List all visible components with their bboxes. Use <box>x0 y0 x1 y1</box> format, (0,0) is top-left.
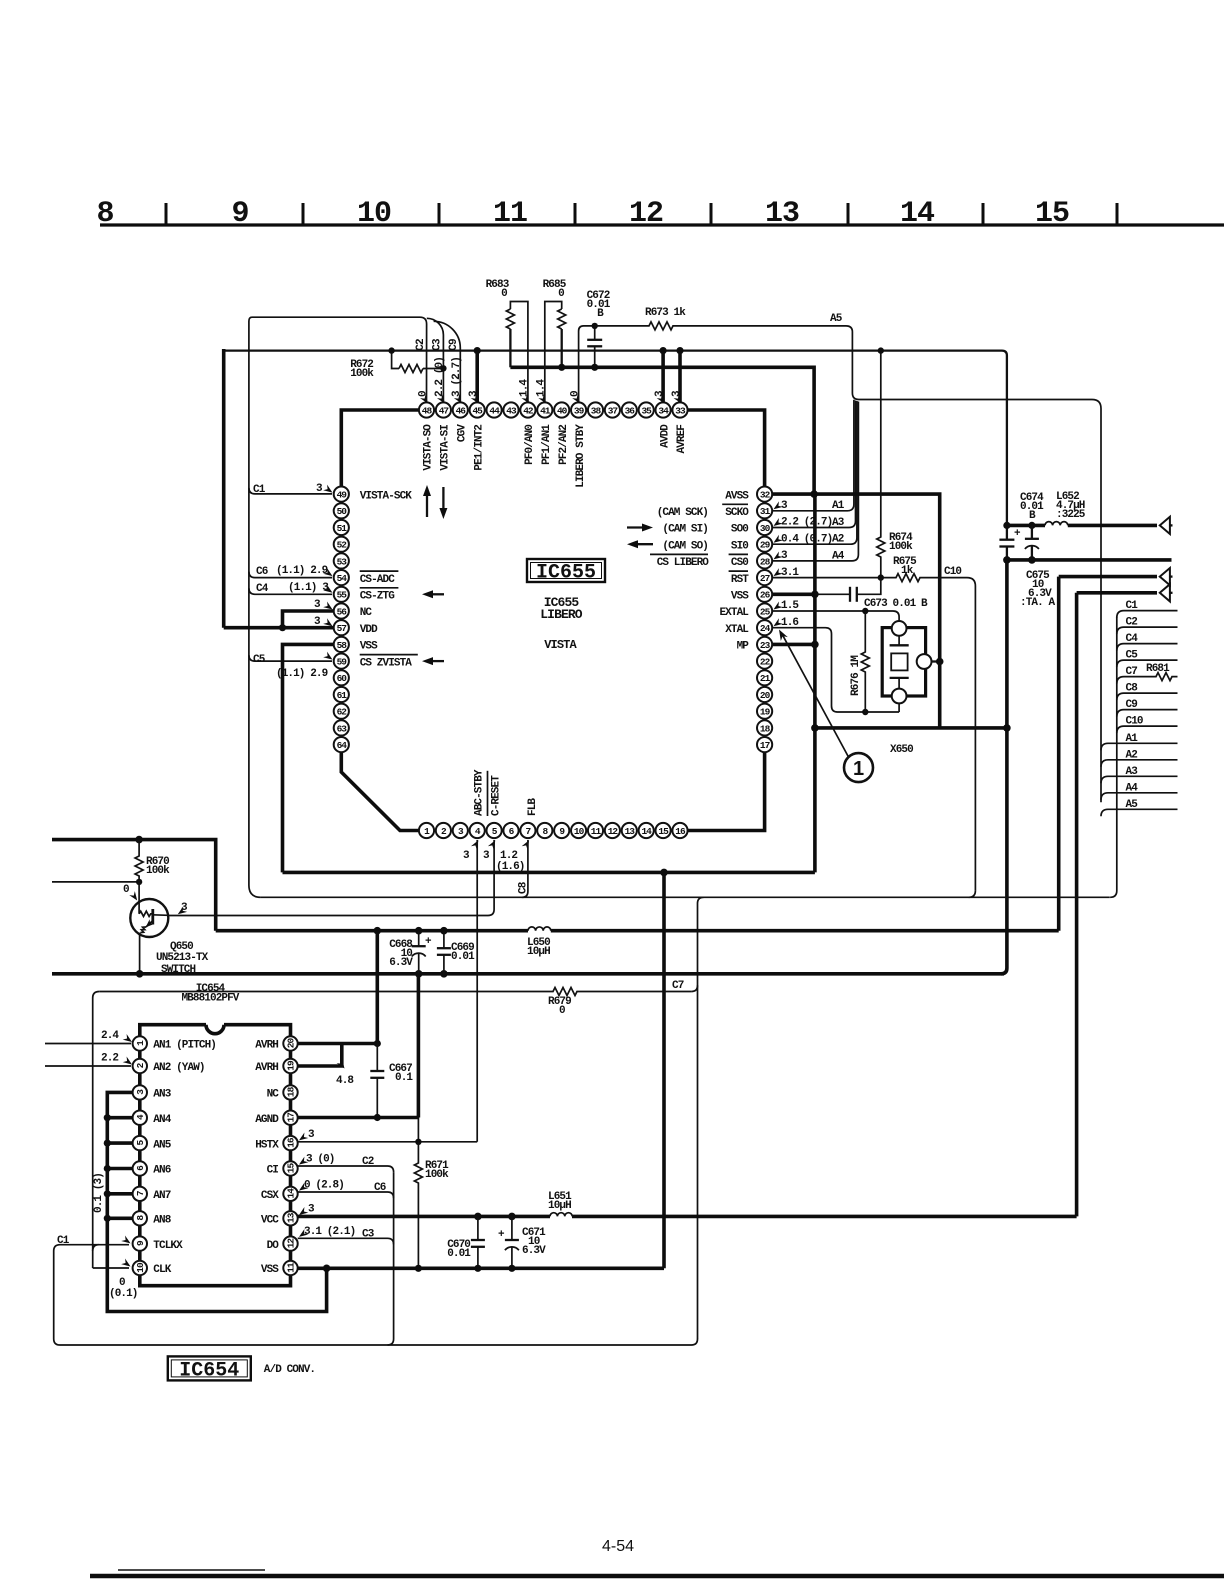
IC655 pin 31 <box>757 503 772 518</box>
svg-text::TA. A: :TA. A <box>1020 597 1056 609</box>
resistor R673 1k on A5 line <box>595 322 846 330</box>
svg-text:100k: 100k <box>350 368 374 380</box>
IC655 pin 8 <box>537 823 552 838</box>
svg-text:ABC-STBY: ABC-STBY <box>473 769 485 816</box>
svg-text:AN3: AN3 <box>153 1089 171 1101</box>
arrowhead right pin y=578 <box>772 568 783 579</box>
ruler ticks <box>166 203 1117 225</box>
IC654 pin 5 <box>133 1136 147 1150</box>
svg-text:100k: 100k <box>425 1169 449 1181</box>
wire IC655 pin 7 down to C-bus (net C8) <box>522 840 528 897</box>
svg-text:PF1/AN1: PF1/AN1 <box>541 424 553 465</box>
svg-text:10: 10 <box>357 197 391 231</box>
arrowhead right pin y=544 <box>772 535 783 546</box>
svg-text:UN5213-TX: UN5213-TX <box>156 952 209 964</box>
svg-text:40: 40 <box>557 405 568 416</box>
wire IC655 pin 4 down to IC654 HSTX <box>476 840 478 1142</box>
svg-text:13: 13 <box>765 197 799 231</box>
C-bus branch to C4 (pin 55) <box>249 588 332 594</box>
svg-text:C673 0.01 B: C673 0.01 B <box>864 598 928 610</box>
svg-text:MP: MP <box>737 641 750 653</box>
IC655 pin 3 <box>453 823 468 838</box>
wire VCC pin13 thick <box>298 1215 1077 1219</box>
IC654 pin 8 <box>133 1211 147 1225</box>
svg-text:29: 29 <box>760 540 771 551</box>
svg-text:12: 12 <box>629 197 663 231</box>
capacitor C667 0.1 <box>370 1070 384 1072</box>
IC655 pin 62 <box>334 704 349 719</box>
IC655 body outline thick polyline (pin48-left-down to pin49) <box>341 410 426 487</box>
svg-text:C6: C6 <box>256 566 268 578</box>
svg-text:25: 25 <box>760 606 771 617</box>
svg-text:0.01: 0.01 <box>451 951 475 963</box>
TOP COMPONENTS <box>224 279 1101 897</box>
svg-text:TCLKX: TCLKX <box>153 1240 183 1252</box>
net list entry C5 <box>1117 660 1178 667</box>
svg-text:C7: C7 <box>1126 666 1138 678</box>
svg-text:0.01: 0.01 <box>447 1248 471 1260</box>
C7 elbow from R679 line <box>691 985 697 991</box>
svg-text:AVRH: AVRH <box>255 1062 278 1074</box>
svg-text:8: 8 <box>96 197 113 231</box>
svg-text:10: 10 <box>135 1262 146 1273</box>
IC655 pin 23 <box>757 637 772 652</box>
IC655 pin 46 <box>453 402 468 417</box>
IC654 boxed title <box>168 1356 251 1380</box>
svg-text:C10: C10 <box>944 566 961 578</box>
svg-text:21: 21 <box>760 673 771 684</box>
supply vertical x=1076.6 down to IC654 VCC <box>1075 593 1079 1217</box>
net C3 drop to pin 47 <box>427 318 444 401</box>
IC655 pin 33 <box>672 402 687 417</box>
svg-text:32: 32 <box>760 490 771 501</box>
svg-text:CGV: CGV <box>457 424 469 442</box>
svg-text:C4: C4 <box>1126 633 1139 645</box>
svg-text:100k: 100k <box>146 865 170 877</box>
svg-text:37: 37 <box>608 405 619 416</box>
net list entry C1 <box>1117 611 1178 618</box>
svg-text:43: 43 <box>506 405 517 416</box>
svg-text:CI: CI <box>267 1165 279 1177</box>
LEFT MID AREA <box>52 644 1110 1339</box>
svg-text:0.1 (3): 0.1 (3) <box>93 1173 105 1213</box>
IC655 pin 36 <box>622 402 637 417</box>
IC655 OUTLINE AND PINS <box>253 357 845 894</box>
svg-text:60: 60 <box>337 673 348 684</box>
svg-text:57: 57 <box>337 623 348 634</box>
IC654 pin 13 <box>283 1211 297 1225</box>
arrow left at CS ZVISTA <box>429 660 444 662</box>
svg-text:C5: C5 <box>1126 650 1139 662</box>
arrowhead at top pin x=443 <box>437 394 448 405</box>
IC655 pin 32 <box>757 487 772 502</box>
svg-text:48: 48 <box>422 405 433 416</box>
svg-text:VCC: VCC <box>261 1215 279 1227</box>
net list entry C4 <box>1117 644 1178 651</box>
svg-text:C6: C6 <box>374 1182 386 1194</box>
ground horizontal y=872.4 <box>283 871 815 875</box>
A5 elbow down into A-bus <box>846 326 852 393</box>
svg-text:27: 27 <box>760 573 771 584</box>
arrowhead at top pin x=477 <box>471 394 482 405</box>
svg-text:17: 17 <box>286 1112 297 1123</box>
svg-text:6.3V: 6.3V <box>522 1245 546 1257</box>
svg-text:10: 10 <box>574 826 585 837</box>
svg-text:53: 53 <box>337 556 348 567</box>
svg-text:PE1/INT2: PE1/INT2 <box>473 425 485 471</box>
svg-text:2.2 (0): 2.2 (0) <box>434 357 446 397</box>
AN pin stub y=1218 <box>107 1217 132 1221</box>
AN pin stub y=1118 <box>107 1116 132 1120</box>
svg-text:A5: A5 <box>1126 799 1139 811</box>
XTAL pin24 wire <box>773 628 899 712</box>
AVREF pin33 riser <box>678 351 682 402</box>
supply line y=592.8 with connector arrow <box>1077 591 1157 595</box>
AVSS pin32 wire <box>773 494 940 728</box>
C7 branch elbow down <box>698 897 704 1339</box>
capacitor C669 0.01 <box>443 931 445 949</box>
svg-text:FLB: FLB <box>527 798 539 816</box>
svg-text:C3: C3 <box>362 1228 375 1240</box>
IC655 pin 41 <box>537 402 552 417</box>
IC655 pin 7 <box>520 823 535 838</box>
IC655 outline pin64 to pin1 (diagonal) <box>341 752 419 831</box>
svg-text:C7: C7 <box>672 980 684 992</box>
IC654 pin 16 <box>283 1136 297 1150</box>
net list entry C10 <box>1117 726 1178 733</box>
svg-text:AN7: AN7 <box>153 1190 170 1202</box>
svg-text:PF0/AN0: PF0/AN0 <box>524 425 536 465</box>
svg-text:R676 1M: R676 1M <box>850 655 862 696</box>
wire CI pin15 (net C2) <box>298 1166 394 1172</box>
svg-text:35: 35 <box>641 405 652 416</box>
IC655 pin 18 <box>757 720 772 735</box>
svg-text:AN1 (PITCH): AN1 (PITCH) <box>153 1040 216 1052</box>
svg-text:AN8: AN8 <box>153 1215 171 1227</box>
4.8 voltage marker <box>337 1059 348 1070</box>
IC655 pin 45 <box>470 402 485 417</box>
bottom border thin segment <box>118 1569 265 1571</box>
ground stub line y=559.9 to right edge <box>1007 558 1172 562</box>
resistor R672 100k <box>392 351 399 369</box>
IC654 pin 4 <box>133 1111 147 1125</box>
IC655 pin 54 <box>334 570 349 585</box>
VSS pin26 wire <box>773 592 815 596</box>
inductor L652 4.7uH <box>1007 524 1045 528</box>
svg-text:LIBERO STBY: LIBERO STBY <box>575 424 587 488</box>
svg-text:4-54: 4-54 <box>602 1538 634 1555</box>
svg-text:39: 39 <box>574 405 585 416</box>
svg-text:2.4: 2.4 <box>101 1030 119 1042</box>
C-bus top-left corner <box>249 317 261 897</box>
IC655 pin 40 <box>554 402 569 417</box>
svg-text:AN5: AN5 <box>153 1139 171 1151</box>
svg-text:C9: C9 <box>448 339 460 351</box>
MP pin23 wire <box>773 643 815 647</box>
IC654 AREA <box>45 931 1077 1383</box>
svg-text:RST: RST <box>731 574 749 586</box>
IC655 pin 14 <box>639 823 654 838</box>
svg-text:(CAM SCK): (CAM SCK) <box>657 507 708 519</box>
svg-text:0: 0 <box>417 391 429 397</box>
svg-text:38: 38 <box>591 405 602 416</box>
svg-text:15: 15 <box>1035 197 1069 231</box>
arrow left at CS-ZTG <box>429 593 444 595</box>
svg-text:AN6: AN6 <box>153 1165 170 1177</box>
IC655 pin 5 <box>487 823 502 838</box>
IC655 pin 52 <box>334 537 349 552</box>
IC654 pin 20 <box>283 1036 297 1050</box>
svg-text:30: 30 <box>760 523 771 534</box>
svg-text:12: 12 <box>608 826 619 837</box>
RULER <box>96 197 1224 231</box>
svg-text:C2: C2 <box>415 339 427 351</box>
IC655 pin 48 <box>419 402 434 417</box>
arrowhead right pin y=528 <box>772 518 783 529</box>
svg-text:3 (0): 3 (0) <box>306 1154 335 1166</box>
svg-text:R673 1k: R673 1k <box>645 307 686 319</box>
svg-text:61: 61 <box>337 690 348 701</box>
svg-text:6.3V: 6.3V <box>389 957 413 969</box>
IC655 pin 39 <box>571 402 586 417</box>
svg-text:IC654: IC654 <box>179 1360 239 1383</box>
IC655 pin 56 <box>334 603 349 618</box>
IC655 pin 35 <box>639 402 654 417</box>
svg-text:15: 15 <box>658 826 669 837</box>
svg-text:SO0: SO0 <box>731 524 748 536</box>
ground horizontal y=728 <box>815 726 1007 730</box>
svg-text:CS-ZTG: CS-ZTG <box>360 591 396 603</box>
C2/C6/C3 bus vertical x=393.6 <box>388 1172 394 1345</box>
A2 elbow from pin29 <box>773 401 857 544</box>
AVRH riser x=377.3 <box>375 931 379 1044</box>
net list entry C8 <box>1117 693 1178 700</box>
svg-text:47: 47 <box>439 405 450 416</box>
svg-text:15: 15 <box>286 1163 297 1174</box>
ruler baseline <box>100 223 1224 226</box>
arrowhead right pin y=628 <box>772 618 783 629</box>
VDD vertical x=1006.9 (559.9 to ground rail) <box>1001 560 1007 974</box>
svg-text:VSS: VSS <box>261 1264 279 1276</box>
IC655 pin 27 <box>757 570 772 585</box>
svg-text:14: 14 <box>641 826 652 837</box>
IC655 pin 61 <box>334 687 349 702</box>
C-bus horizontal wire y=897.3 <box>261 896 1110 898</box>
IC655 boxed title <box>527 559 605 582</box>
svg-text:CS0: CS0 <box>731 557 748 569</box>
IC655 pin 53 <box>334 553 349 568</box>
resistor R674 100k (RST pullup) <box>877 351 885 578</box>
supply vertical x=1058.7 down to 4.8 rail <box>1057 577 1061 931</box>
IC654 pin 7 <box>133 1187 147 1201</box>
IC655 pin 4 <box>470 823 485 838</box>
capacitor C671 10 6.3V electrolytic <box>511 1216 513 1240</box>
AGND riser x=418.4 to ground rail <box>417 974 421 1118</box>
AN pin stub y=1194 <box>107 1192 132 1196</box>
wire AVRH pin20 <box>298 1042 378 1046</box>
svg-text:C8: C8 <box>1126 683 1139 695</box>
IC655 pin 19 <box>757 704 772 719</box>
IC654 pin 14 <box>283 1187 297 1201</box>
IC655 pin 6 <box>503 823 518 838</box>
svg-text:3.1 (2.1): 3.1 (2.1) <box>304 1226 355 1238</box>
svg-text:36: 36 <box>625 405 636 416</box>
svg-text:0: 0 <box>558 288 564 300</box>
C-bus branch to C1 (pin 49) <box>249 488 332 494</box>
ground rail thick y=973.8 <box>52 972 1004 976</box>
IC655 pin 55 <box>334 587 349 602</box>
svg-text:10µH: 10µH <box>527 946 550 958</box>
arrowhead left pin y=628 <box>323 618 334 629</box>
IC655 pin 26 <box>757 587 772 602</box>
svg-text:C3: C3 <box>432 338 444 351</box>
svg-text:45: 45 <box>472 405 483 416</box>
svg-text:31: 31 <box>760 506 771 517</box>
svg-text:CS-ADC: CS-ADC <box>360 574 396 586</box>
wire TCLKX pin9 (net C1) <box>60 1244 129 1246</box>
net list entry A1 <box>1101 743 1178 750</box>
C10 elbow into C-bus <box>969 891 976 898</box>
IC655 pin 49 <box>334 487 349 502</box>
net list entry A4 <box>1101 793 1178 800</box>
crystal X650 resonator <box>882 628 925 696</box>
A4 elbow from pin28 <box>773 402 858 561</box>
FOOTER <box>90 1538 1224 1576</box>
arrowhead left pin y=578 <box>323 568 334 579</box>
svg-text:1k: 1k <box>901 565 914 577</box>
svg-text:16: 16 <box>286 1137 297 1148</box>
svg-text:42: 42 <box>523 405 534 416</box>
net C2 drop to pin 48 <box>420 317 427 401</box>
svg-text:19: 19 <box>286 1060 297 1071</box>
IC655 pin 51 <box>334 520 349 535</box>
svg-text:26: 26 <box>760 590 771 601</box>
svg-text:41: 41 <box>540 405 551 416</box>
arrowhead left pin y=494 <box>323 485 334 496</box>
capacitor C675 10 6.3V :TA A <box>1031 525 1033 538</box>
svg-text:0 (2.8): 0 (2.8) <box>304 1180 344 1192</box>
svg-text:(0.1): (0.1) <box>109 1288 138 1300</box>
svg-text:C1: C1 <box>1126 600 1139 612</box>
CLK riser x=92.7 up to R679 line <box>93 992 100 1269</box>
svg-text:PF2/AN2: PF2/AN2 <box>558 425 570 465</box>
svg-text:A3: A3 <box>1126 766 1139 778</box>
net list entry C7 <box>1117 673 1178 684</box>
ground mid vertical x=664 <box>662 872 666 1268</box>
capacitor C668 10 6.3V <box>418 931 420 947</box>
resistor R685 0 (hairpin to pin 41) <box>545 302 562 402</box>
IC655 pin 16 <box>672 823 687 838</box>
svg-text:28: 28 <box>760 556 771 567</box>
arrowhead at top pin x=528 <box>521 394 532 405</box>
svg-text:13: 13 <box>286 1212 297 1223</box>
IC655 pin 25 <box>757 603 772 618</box>
IC655 pin 57 <box>334 620 349 635</box>
supply line y=839.6 <box>52 840 216 931</box>
IC655 pin 47 <box>436 402 451 417</box>
svg-text:33: 33 <box>675 405 686 416</box>
svg-text:0: 0 <box>123 884 129 896</box>
svg-text:A2: A2 <box>1126 749 1138 761</box>
IC655 pin 63 <box>334 720 349 735</box>
svg-text:0: 0 <box>559 1005 565 1017</box>
svg-text:VSS: VSS <box>731 591 749 603</box>
capacitor C670 0.01 <box>477 1216 479 1240</box>
svg-text:2.2: 2.2 <box>101 1053 118 1065</box>
arrowhead right pin y=511 <box>772 501 783 512</box>
wire CLK pin10 <box>93 1267 129 1269</box>
svg-text:SCKO: SCKO <box>725 507 749 519</box>
wire pin39 elbow up to C672 <box>579 326 595 401</box>
ruler numbers <box>96 197 1069 231</box>
AN pin stub y=1168 <box>107 1167 132 1171</box>
inductor L651 10uH <box>550 1212 572 1222</box>
capacitor C672 0.01 B <box>594 326 596 340</box>
svg-text:AN2 (YAW): AN2 (YAW) <box>153 1062 204 1074</box>
arrowhead at top pin x=426 <box>420 394 431 405</box>
svg-text:C-RESET: C-RESET <box>490 775 502 816</box>
svg-text:NC: NC <box>360 607 373 619</box>
svg-text:CS ZVISTA: CS ZVISTA <box>360 657 413 669</box>
svg-text:22: 22 <box>760 657 771 668</box>
svg-text:NC: NC <box>267 1089 280 1101</box>
IC655 pin 30 <box>757 520 772 535</box>
svg-text::3225: :3225 <box>1056 509 1086 521</box>
IC655 pin 44 <box>487 402 502 417</box>
IC655 pin 64 <box>334 737 349 752</box>
svg-text:50: 50 <box>337 506 348 517</box>
AN pin stub y=1143 <box>107 1141 132 1145</box>
wire AN1 pin1 from left edge <box>45 1043 131 1045</box>
svg-text:12: 12 <box>286 1238 297 1249</box>
net C9 drop to pin 46 <box>434 321 461 401</box>
svg-text:54: 54 <box>337 573 348 584</box>
C-list vertical bus <box>1110 617 1117 897</box>
arrowhead right pin y=561 <box>772 551 783 562</box>
IC654 pin 3 <box>133 1085 147 1099</box>
svg-text:14: 14 <box>286 1188 297 1199</box>
svg-text:49: 49 <box>337 490 348 501</box>
IC655 pin 34 <box>656 402 671 417</box>
svg-text:A1: A1 <box>1126 733 1139 745</box>
net list entry C2 <box>1117 627 1178 634</box>
arrowhead at top pin x=579 <box>572 394 583 405</box>
IC655 pin 42 <box>520 402 535 417</box>
svg-text:1.4: 1.4 <box>536 379 548 397</box>
supply line y=576.6 with connector arrow <box>1059 575 1157 579</box>
IC655 pin 22 <box>757 654 772 669</box>
IC655 pin 50 <box>334 503 349 518</box>
svg-text:20: 20 <box>286 1038 297 1049</box>
svg-text:VSS: VSS <box>360 641 378 653</box>
svg-text:55: 55 <box>337 590 348 601</box>
arrow up (VISTA-SO direction) <box>426 492 428 517</box>
VDD pin57 wire <box>224 626 333 630</box>
IC654 pin 11 <box>283 1261 297 1275</box>
arrowhead left pin y=661 <box>323 652 334 663</box>
VSS pin58 wire <box>283 644 334 872</box>
wire AVRH pin19 tied to pin20 <box>298 1044 342 1067</box>
junction dot NC/VDD <box>279 624 286 631</box>
VDD bus horizontal y=350.6 <box>224 351 1007 526</box>
svg-text:AVRH: AVRH <box>255 1040 278 1052</box>
svg-text:AN4: AN4 <box>153 1114 171 1126</box>
svg-text:CS LIBERO: CS LIBERO <box>657 557 710 569</box>
IC655 pin 12 <box>605 823 620 838</box>
wire CSX pin14 (net C6) <box>298 1192 394 1198</box>
IC655 pin 10 <box>571 823 586 838</box>
C1 loop left corner and bottom bus <box>54 1245 698 1345</box>
